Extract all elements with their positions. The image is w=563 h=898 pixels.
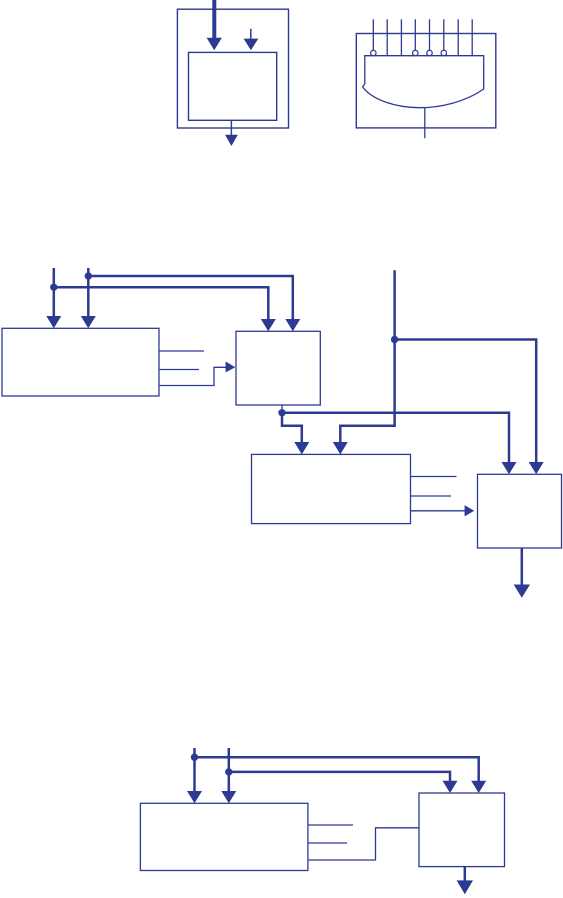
wire: box 2 bottom output stub xyxy=(281,405,283,410)
junction dot on input 1 xyxy=(50,284,57,291)
box 3 (middle diagram lower large block) xyxy=(252,454,411,523)
arrowhead: box 6 output xyxy=(457,880,473,894)
wire: gate input 2 xyxy=(386,19,388,55)
wire: thin control input into figure A xyxy=(250,29,252,40)
wire: vertical input 2 of middle diagram xyxy=(87,268,90,317)
wire: long feedback line from box 2 dot to box 4 left-top arrow xyxy=(282,413,509,463)
wire: gate input 1 (inverted) xyxy=(372,19,374,50)
wire: step from box 2 dot down into box 3 left arrow xyxy=(282,413,302,443)
arrowhead: input 1 into box 1 xyxy=(46,316,61,328)
wire: gate input 7 xyxy=(457,19,459,55)
box 1 (middle diagram large block) xyxy=(2,328,159,396)
inversion bubble input 4 xyxy=(413,50,419,56)
junction dot on bottom input 1 xyxy=(191,754,198,761)
inversion bubble input 1 xyxy=(371,50,377,56)
wire: box 3 output stub 1 xyxy=(411,476,457,478)
AND gate body xyxy=(363,56,484,108)
wire: box 4 bottom output xyxy=(521,548,524,585)
arrowhead: into box 6 top left xyxy=(443,781,458,793)
wire: vertical input 2 of bottom diagram xyxy=(228,748,231,792)
junction dot on input 2 xyxy=(85,272,92,279)
wire: thick input bus into figure A xyxy=(212,0,216,38)
box 6 (bottom diagram small block) xyxy=(419,793,505,867)
wire: box 3 output stub 2 xyxy=(411,495,452,497)
wire: long vertical line down right side xyxy=(340,270,394,442)
wire: box 6 bottom output xyxy=(464,867,467,881)
wire: box 1 output stub 2 xyxy=(159,369,199,371)
wire: box 5 output stub 1 xyxy=(308,824,353,826)
arrowhead: input 2 into box 5 xyxy=(221,791,236,803)
box 2 (middle diagram small block) xyxy=(236,331,320,405)
wire: box 1 output stub 1 xyxy=(159,350,204,352)
figure A outer block frame xyxy=(177,9,288,128)
box 4 (middle diagram lower small block) xyxy=(478,474,562,548)
arrowhead: into box 6 top right xyxy=(471,781,486,793)
arrowhead: thin control input xyxy=(244,39,259,51)
arrowhead: thick input bus xyxy=(207,38,222,51)
wire: branch from bottom input 1 dot to box 6 right arrow xyxy=(195,757,479,781)
box 5 (bottom diagram large block) xyxy=(140,803,308,870)
wire: gate input 6 (inverted) xyxy=(443,19,445,50)
figure B outer block frame xyxy=(356,34,496,128)
wire: branch from input 1 dot to box 2 left arrow xyxy=(54,287,268,319)
arrowhead: into box 3 top left xyxy=(294,442,309,454)
wire: vertical input 1 of middle diagram xyxy=(53,268,56,317)
wire: gate input 4 (inverted) xyxy=(414,19,416,50)
wire: branch from long vertical to box 4 right-top arrow xyxy=(395,340,537,463)
wire: gate input 5 (inverted) xyxy=(429,19,431,50)
arrowhead: into box 4 left side xyxy=(465,505,475,516)
junction dot on bottom input 2 xyxy=(225,768,232,775)
junction dot on long vertical line xyxy=(391,336,398,343)
wire: branch from bottom input 2 dot to box 6 left arrow xyxy=(229,772,450,781)
wire: gate input 8 xyxy=(471,19,473,55)
arrowhead: into box 3 top right xyxy=(333,442,348,454)
wire: vertical input 1 of bottom diagram xyxy=(193,748,196,792)
wire: box 3 output stub 3 into box 4 xyxy=(411,510,466,512)
arrowhead: into box 4 top right xyxy=(529,462,544,474)
figure A inner register box xyxy=(189,52,277,120)
wire: box 5 output stub 3 stepping up into box 6 xyxy=(308,828,419,860)
wire: gate input 3 xyxy=(400,19,402,55)
inversion bubble input 6 xyxy=(441,50,447,56)
arrowhead: box 4 output xyxy=(514,585,530,598)
arrowhead: figure A output xyxy=(225,135,238,146)
arrowhead: into box 2 top left xyxy=(261,319,276,331)
wire: figure A output xyxy=(230,120,232,135)
junction dot under box 2 xyxy=(278,409,285,416)
wire: branch from input 2 dot to box 2 right arrow xyxy=(88,276,292,319)
wire: box 1 output stub 3 stepping up into box 2 xyxy=(159,367,227,385)
wire: gate output xyxy=(424,108,426,139)
arrowhead: into box 2 top right xyxy=(285,319,300,331)
arrowhead: input 1 into box 5 xyxy=(187,791,202,803)
arrowhead: into box 2 left side xyxy=(226,362,236,373)
inversion bubble input 5 xyxy=(427,50,433,56)
wire: box 5 output stub 2 xyxy=(308,842,347,844)
arrowhead: input 2 into box 1 xyxy=(81,316,96,328)
arrowhead: into box 4 top left xyxy=(502,462,517,474)
